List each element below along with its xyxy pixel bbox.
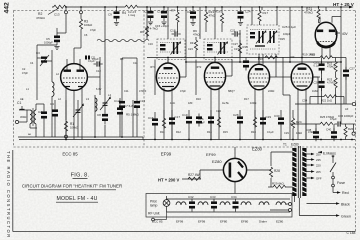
under-tube cluster: V3 cathode network: [182, 113, 221, 127]
resistor R7: [171, 7, 179, 32]
arrowhead of rail: [349, 6, 354, 9]
junction dots on buses: [65, 57, 353, 141]
dashed RF-unit divider: [143, 11, 145, 148]
svg-text:4w 5k: 4w 5k: [222, 101, 229, 105]
long right verticals: [340, 62, 342, 124]
svg-text:1kΩ: 1kΩ: [170, 101, 175, 105]
svg-text:R6: R6: [140, 30, 144, 34]
IFT1 primary cap: [160, 44, 166, 50]
svg-text:C1: C1: [17, 101, 21, 105]
svg-text:300Ω: 300Ω: [20, 115, 26, 119]
svg-text:220: 220: [316, 164, 321, 168]
svg-text:47kΩ: 47kΩ: [209, 13, 216, 17]
svg-text:EF99: EF99: [206, 152, 216, 157]
svg-text:FIG. 8.: FIG. 8.: [71, 173, 90, 179]
junction dots on rail: [65, 6, 342, 8]
heater V4: [241, 202, 251, 205]
svg-text:EF99: EF99: [176, 220, 184, 224]
svg-text:R10: R10: [196, 97, 201, 101]
svg-text:C16: C16: [148, 116, 154, 120]
resistor R24h: [302, 95, 344, 104]
svg-text:EF99: EF99: [198, 220, 206, 224]
svg-text:C2: C2: [38, 110, 42, 114]
svg-text:AF: AF: [345, 107, 349, 111]
svg-text:EF99: EF99: [161, 152, 172, 157]
valve V3 EF80 envelope: [204, 57, 232, 140]
heater V3: [220, 202, 230, 205]
svg-text:HT + 20 V: HT + 20 V: [333, 2, 355, 7]
svg-text:Red: Red: [342, 191, 349, 195]
valve V7 EZ80 rectifier envelope: [182, 147, 271, 194]
svg-text:MODEL FM - 4U: MODEL FM - 4U: [56, 196, 97, 202]
svg-text:C34: C34: [302, 99, 308, 103]
V1 anode a: [64, 70, 72, 72]
svg-text:0.5µF: 0.5µF: [330, 117, 337, 121]
svg-text:C20: C20: [187, 10, 193, 14]
svg-text:220Ω: 220Ω: [268, 89, 274, 93]
ratio detector transformer box: [247, 25, 279, 54]
de-emphasis line: [290, 123, 320, 125]
svg-text:C11: C11: [133, 61, 138, 65]
svg-text:0.1µF: 0.1µF: [267, 130, 274, 134]
svg-text:205: 205: [316, 170, 321, 174]
svg-text:47pF: 47pF: [90, 28, 96, 32]
right output block: [290, 53, 356, 142]
heater decoupling C32: [189, 199, 195, 212]
svg-text:Dialer: Dialer: [259, 220, 267, 224]
IF transformer IFT1 box: [157, 39, 185, 60]
svg-text:C3: C3: [36, 51, 40, 55]
capacitor C27: [343, 58, 355, 105]
capacitor C9: [108, 7, 120, 25]
svg-text:IFT2: IFT2: [196, 65, 202, 69]
caption: FIG. 8.: [71, 173, 90, 179]
T1 core: [297, 146, 299, 198]
svg-text:R25: R25: [280, 37, 285, 41]
variable capacitor VC2: [100, 96, 111, 110]
svg-text:100Ω: 100Ω: [250, 101, 256, 105]
resistor R16: [215, 7, 224, 32]
svg-text:C16: C16: [148, 42, 153, 46]
ratio det primary winding: [256, 31, 266, 44]
T1 voltage taps: [307, 154, 312, 178]
wires under tubes to bus: [122, 95, 306, 140]
lead Red: [333, 187, 349, 195]
pilot lamp: [150, 196, 170, 212]
svg-text:C24: C24: [216, 109, 221, 113]
resistor R27 smoothing: [188, 173, 201, 180]
heater V7: [276, 202, 286, 205]
heater bus: [167, 199, 291, 212]
misc tiny value labels: [20, 32, 349, 136]
svg-text:C30: C30: [274, 114, 280, 118]
svg-text:C23: C23: [188, 47, 193, 51]
svg-text:HT + 200 V: HT + 200 V: [158, 178, 180, 183]
svg-text:C2: C2: [22, 67, 26, 71]
svg-text:C28: C28: [233, 113, 239, 117]
capacitor C3: [36, 51, 52, 66]
grid coil L3: [52, 82, 54, 96]
svg-text:10kΩ: 10kΩ: [296, 131, 302, 135]
svg-text:C27: C27: [350, 67, 356, 71]
svg-text:C36 1000pF: C36 1000pF: [338, 114, 354, 118]
svg-text:C32: C32: [188, 195, 194, 199]
T1 primary winding: [292, 148, 296, 196]
heater decoupling C33: [211, 199, 217, 212]
resistor R9 vertical between IFTs: [194, 37, 197, 58]
svg-text:C12: C12: [114, 99, 120, 103]
svg-text:Fuse: Fuse: [337, 181, 345, 185]
resistor in rail (left): [54, 5, 67, 8]
capacitor C2: [41, 109, 47, 122]
wire EZ80 anode to transformer: [271, 151, 292, 153]
svg-text:470kΩ: 470kΩ: [327, 65, 335, 69]
svg-text:Green: Green: [341, 214, 351, 218]
svg-text:R17: R17: [244, 97, 249, 101]
svg-text:220: 220: [290, 55, 295, 59]
AF take-off line: [295, 103, 352, 105]
svg-text:C5: C5: [46, 37, 50, 41]
wire V5 cathode: [305, 120, 307, 140]
svg-text:EF80: EF80: [220, 220, 228, 224]
valve V5 EABC80 envelope: [291, 57, 320, 140]
svg-text:C33: C33: [210, 195, 216, 199]
svg-text:EZ80: EZ80: [276, 220, 284, 224]
variable capacitor VC1: [73, 103, 84, 117]
IFT1 dashed core: [160, 43, 182, 53]
svg-text:R12: R12: [176, 130, 181, 134]
svg-text:R16: R16: [258, 57, 263, 61]
resistor R3: [79, 19, 92, 29]
svg-text:4.7MΩ: 4.7MΩ: [327, 81, 335, 85]
valve V6 EM80 tuning indicator envelope: [315, 7, 348, 62]
svg-text:C21: C21: [230, 29, 236, 33]
svg-text:470pF: 470pF: [139, 89, 147, 93]
svg-text:40V: 40V: [342, 32, 349, 36]
capacitor C7: [117, 105, 123, 118]
svg-text:C13: C13: [140, 99, 146, 103]
svg-text:6.3V: 6.3V: [96, 87, 102, 91]
R1 terminal: [65, 135, 68, 138]
svg-text:EZ80: EZ80: [291, 143, 299, 147]
terminal circles at rail: [65, 11, 68, 14]
ground C5: [54, 47, 59, 50]
capacitor C11a: [85, 56, 96, 60]
capacitor C22: [238, 7, 251, 25]
V1 cathodes: [65, 86, 70, 88]
svg-text:C19: C19: [182, 113, 188, 117]
svg-text:C25 0.1µF: C25 0.1µF: [282, 25, 296, 29]
capacitor C26a: [314, 78, 325, 104]
resistor R21 to V6: [304, 7, 320, 23]
screen bus: [147, 57, 302, 59]
front-end misc labels: [20, 67, 101, 101]
svg-text:R4: R4: [122, 11, 126, 15]
resistor R20 in screen bus: [302, 57, 320, 59]
svg-text:C18: C18: [170, 29, 176, 33]
svg-text:1MΩ: 1MΩ: [312, 89, 318, 93]
R2 pointer and label: [36, 8, 59, 20]
svg-text:47pF: 47pF: [22, 71, 28, 75]
svg-text:470kΩ: 470kΩ: [36, 16, 46, 20]
HT+ top rail: [52, 6, 349, 8]
resistor R17: [258, 7, 268, 25]
svg-text:R24: R24: [296, 120, 302, 124]
coupling wires right of V1: [87, 57, 100, 95]
resistor in rail (second): [125, 5, 138, 8]
svg-text:235: 235: [316, 158, 321, 162]
svg-text:Black: Black: [341, 202, 350, 206]
svg-text:R29 6kΩ: R29 6kΩ: [272, 182, 285, 186]
lower-left solid border of caption area: [13, 150, 356, 232]
svg-text:C29: C29: [266, 115, 272, 119]
small blob under V3 area: [196, 114, 202, 127]
svg-text:C6: C6: [84, 33, 88, 37]
svg-text:R5 1-8kΩ: R5 1-8kΩ: [126, 113, 140, 117]
svg-text:C 184: C 184: [346, 231, 355, 235]
svg-text:C9: C9: [108, 13, 112, 17]
mains switch S1: [318, 151, 336, 172]
svg-text:RF Unit: RF Unit: [148, 212, 160, 216]
svg-text:0.1µF: 0.1µF: [314, 64, 321, 68]
ratio det primary cap: [250, 32, 255, 38]
heater V1: [176, 202, 186, 205]
valve V2 EF99 envelope: [156, 57, 186, 140]
resistor R22: [327, 58, 337, 78]
volume terminal: [352, 132, 355, 135]
svg-text:THE RADIO CONSTRUCTOR: THE RADIO CONSTRUCTOR: [6, 151, 11, 239]
under-tube cluster: V5 network: [274, 114, 302, 128]
capacitor C38: [306, 124, 319, 141]
valve V1 ECC85 envelope: [61, 59, 88, 140]
vertical drops from rail: [105, 7, 326, 95]
svg-text:100kΩ: 100kΩ: [70, 126, 78, 130]
svg-text:C40: C40: [326, 128, 332, 132]
svg-text:C11: C11: [124, 89, 129, 93]
left mid wires: [37, 7, 81, 137]
resistor R28: [269, 167, 280, 177]
ratio det tertiary: [255, 45, 265, 47]
AGC bus: [186, 61, 341, 63]
capacitor C8: [102, 111, 108, 124]
svg-text:1000pF: 1000pF: [44, 40, 53, 44]
svg-text:R14: R14: [207, 130, 212, 134]
heater row labels: [152, 220, 284, 224]
small cap near V1 right: [92, 57, 103, 67]
lead Black: [307, 202, 350, 206]
extra cluster labels: [26, 28, 295, 113]
svg-text:IFT1: IFT1: [150, 65, 156, 69]
svg-text:470kΩ: 470kΩ: [304, 11, 314, 15]
caption: model line: [56, 196, 98, 202]
svg-text:R17: R17: [263, 11, 269, 15]
svg-text:1 meg: 1 meg: [128, 13, 136, 17]
svg-text:47kΩ: 47kΩ: [193, 32, 200, 36]
caption: circuit diagram line: [22, 184, 122, 190]
svg-text:47pF: 47pF: [180, 89, 186, 93]
svg-text:C15 +10pF: C15 +10pF: [155, 24, 169, 28]
capacitor C40: [326, 124, 337, 141]
capacitor C1: [20, 106, 25, 109]
svg-text:R26: R26: [348, 127, 354, 131]
capacitor C25a: [314, 58, 325, 81]
svg-text:R15: R15: [243, 45, 249, 49]
capacitor C10: [145, 7, 154, 25]
svg-text:R5: R5: [120, 57, 124, 61]
capacitor C14: [157, 7, 167, 25]
svg-text:R19 1MΩ: R19 1MΩ: [302, 53, 316, 57]
svg-text:R16: R16: [215, 10, 221, 14]
capacitor C36: [332, 123, 333, 125]
svg-text:R22 1kΩ: R22 1kΩ: [321, 99, 332, 103]
svg-text:C8: C8: [97, 113, 101, 117]
svg-text:EZ80: EZ80: [212, 159, 222, 164]
resistor in screen bus: [265, 56, 278, 59]
aerial input terminal: [15, 101, 27, 124]
primary tap terminals: [270, 196, 294, 212]
heater V2: [198, 202, 208, 205]
capacitor C4: [52, 107, 58, 120]
svg-text:R27 4W: R27 4W: [188, 173, 200, 177]
fuse F1: [332, 172, 345, 187]
svg-text:C11: C11: [91, 56, 96, 60]
lead Green: [299, 198, 351, 218]
svg-text:180: 180: [188, 101, 193, 105]
svg-text:250: 250: [316, 153, 321, 157]
de-emphasis network under ratio detector: [263, 54, 291, 140]
svg-text:C12: C12: [96, 69, 101, 73]
svg-text:CIRCUIT DIAGRAM FOR "HEATHKI: CIRCUIT DIAGRAM FOR "HEATHKIT" FM TUNER: [22, 184, 122, 189]
ganging link (wavy): [97, 39, 149, 41]
V1 grids: [63, 77, 85, 79]
resistor R13: [204, 7, 215, 32]
T1 secondary winding: [302, 148, 306, 196]
svg-text:100kΩ: 100kΩ: [84, 23, 92, 27]
valve V4 EF80 envelope: [248, 57, 276, 140]
under-tube cluster: V2 cathode network: [148, 115, 180, 129]
svg-text:EF80: EF80: [241, 220, 249, 224]
svg-text:442: 442: [4, 2, 11, 14]
svg-text:R15: R15: [223, 130, 228, 134]
IFT1 secondary winding: [171, 42, 181, 55]
aerial coil L1: [30, 108, 36, 126]
svg-text:47kΩ: 47kΩ: [308, 130, 314, 134]
svg-text:AE: AE: [20, 97, 24, 101]
resistor R25: [320, 122, 333, 125]
capacitor C5: [44, 34, 60, 46]
svg-text:C14: C14: [157, 10, 163, 14]
capacitor C20: [187, 7, 196, 25]
V1 anode b: [77, 70, 85, 72]
svg-text:E.Mains: E.Mains: [323, 152, 336, 156]
resistor R15 vertical after IFT2: [238, 40, 248, 58]
svg-text:C24: C24: [245, 10, 251, 14]
under-tube cluster: V4 cathode network: [233, 113, 271, 128]
extended IF strip verticals: [122, 58, 137, 95]
svg-text:R11: R11: [160, 130, 165, 134]
svg-text:R28: R28: [274, 169, 280, 173]
IF transformer IFT2 box: [204, 39, 232, 60]
L1 wires: [27, 104, 44, 137]
svg-text:C17: C17: [175, 115, 181, 119]
scan noise: [0, 0, 1, 1]
R9 label: [193, 29, 200, 36]
heater V5: [259, 202, 269, 205]
svg-text:OFF: OFF: [316, 177, 322, 181]
svg-text:C2?: C2?: [233, 42, 238, 46]
svg-text:ECC 85: ECC 85: [152, 220, 163, 224]
svg-text:lamp: lamp: [150, 204, 157, 208]
capacitor C21: [230, 29, 241, 37]
heater chain enclosure: [146, 194, 292, 218]
resistor R29 surge: [268, 182, 292, 189]
capacitor C18: [170, 29, 181, 37]
svg-text:C4: C4: [30, 61, 34, 65]
wires front-end: [18, 95, 143, 140]
dashed bottom border of main schematic: [14, 146, 356, 148]
svg-text:R18: R18: [251, 130, 256, 134]
svg-text:C13: C13: [54, 13, 60, 17]
svg-text:C29: C29: [284, 131, 289, 135]
svg-text:6BQ?: 6BQ?: [228, 89, 235, 93]
mains transformer T1: [283, 143, 307, 199]
RF Unit tag: [148, 212, 167, 221]
svg-text:EZ80: EZ80: [252, 147, 263, 152]
resistor R23: [327, 78, 337, 105]
R4 label: [122, 10, 137, 17]
V1 pins: [66, 59, 82, 140]
svg-text:100pF: 100pF: [283, 32, 291, 36]
svg-text:R9: R9: [190, 41, 194, 45]
resistor R1: [64, 121, 78, 135]
svg-text:T1: T1: [283, 143, 287, 147]
resistor R6 feed to IFT1: [140, 26, 149, 39]
svg-text:R7: R7: [171, 9, 175, 13]
small blob near box B: [243, 58, 249, 71]
svg-text:C10: C10: [145, 10, 151, 14]
svg-text:C34: C34: [231, 195, 237, 199]
heater decoupling C34: [233, 199, 239, 212]
ratio det secondary winding: [267, 31, 277, 44]
oscillator coil L2: [95, 98, 97, 111]
svg-text:ECC 85: ECC 85: [62, 152, 78, 157]
resistor R26: [344, 124, 354, 140]
output terminal: [352, 102, 355, 105]
ground bus: [19, 139, 355, 141]
mid cluster under V1: [114, 98, 145, 111]
wire V5 anode right: [313, 76, 318, 78]
